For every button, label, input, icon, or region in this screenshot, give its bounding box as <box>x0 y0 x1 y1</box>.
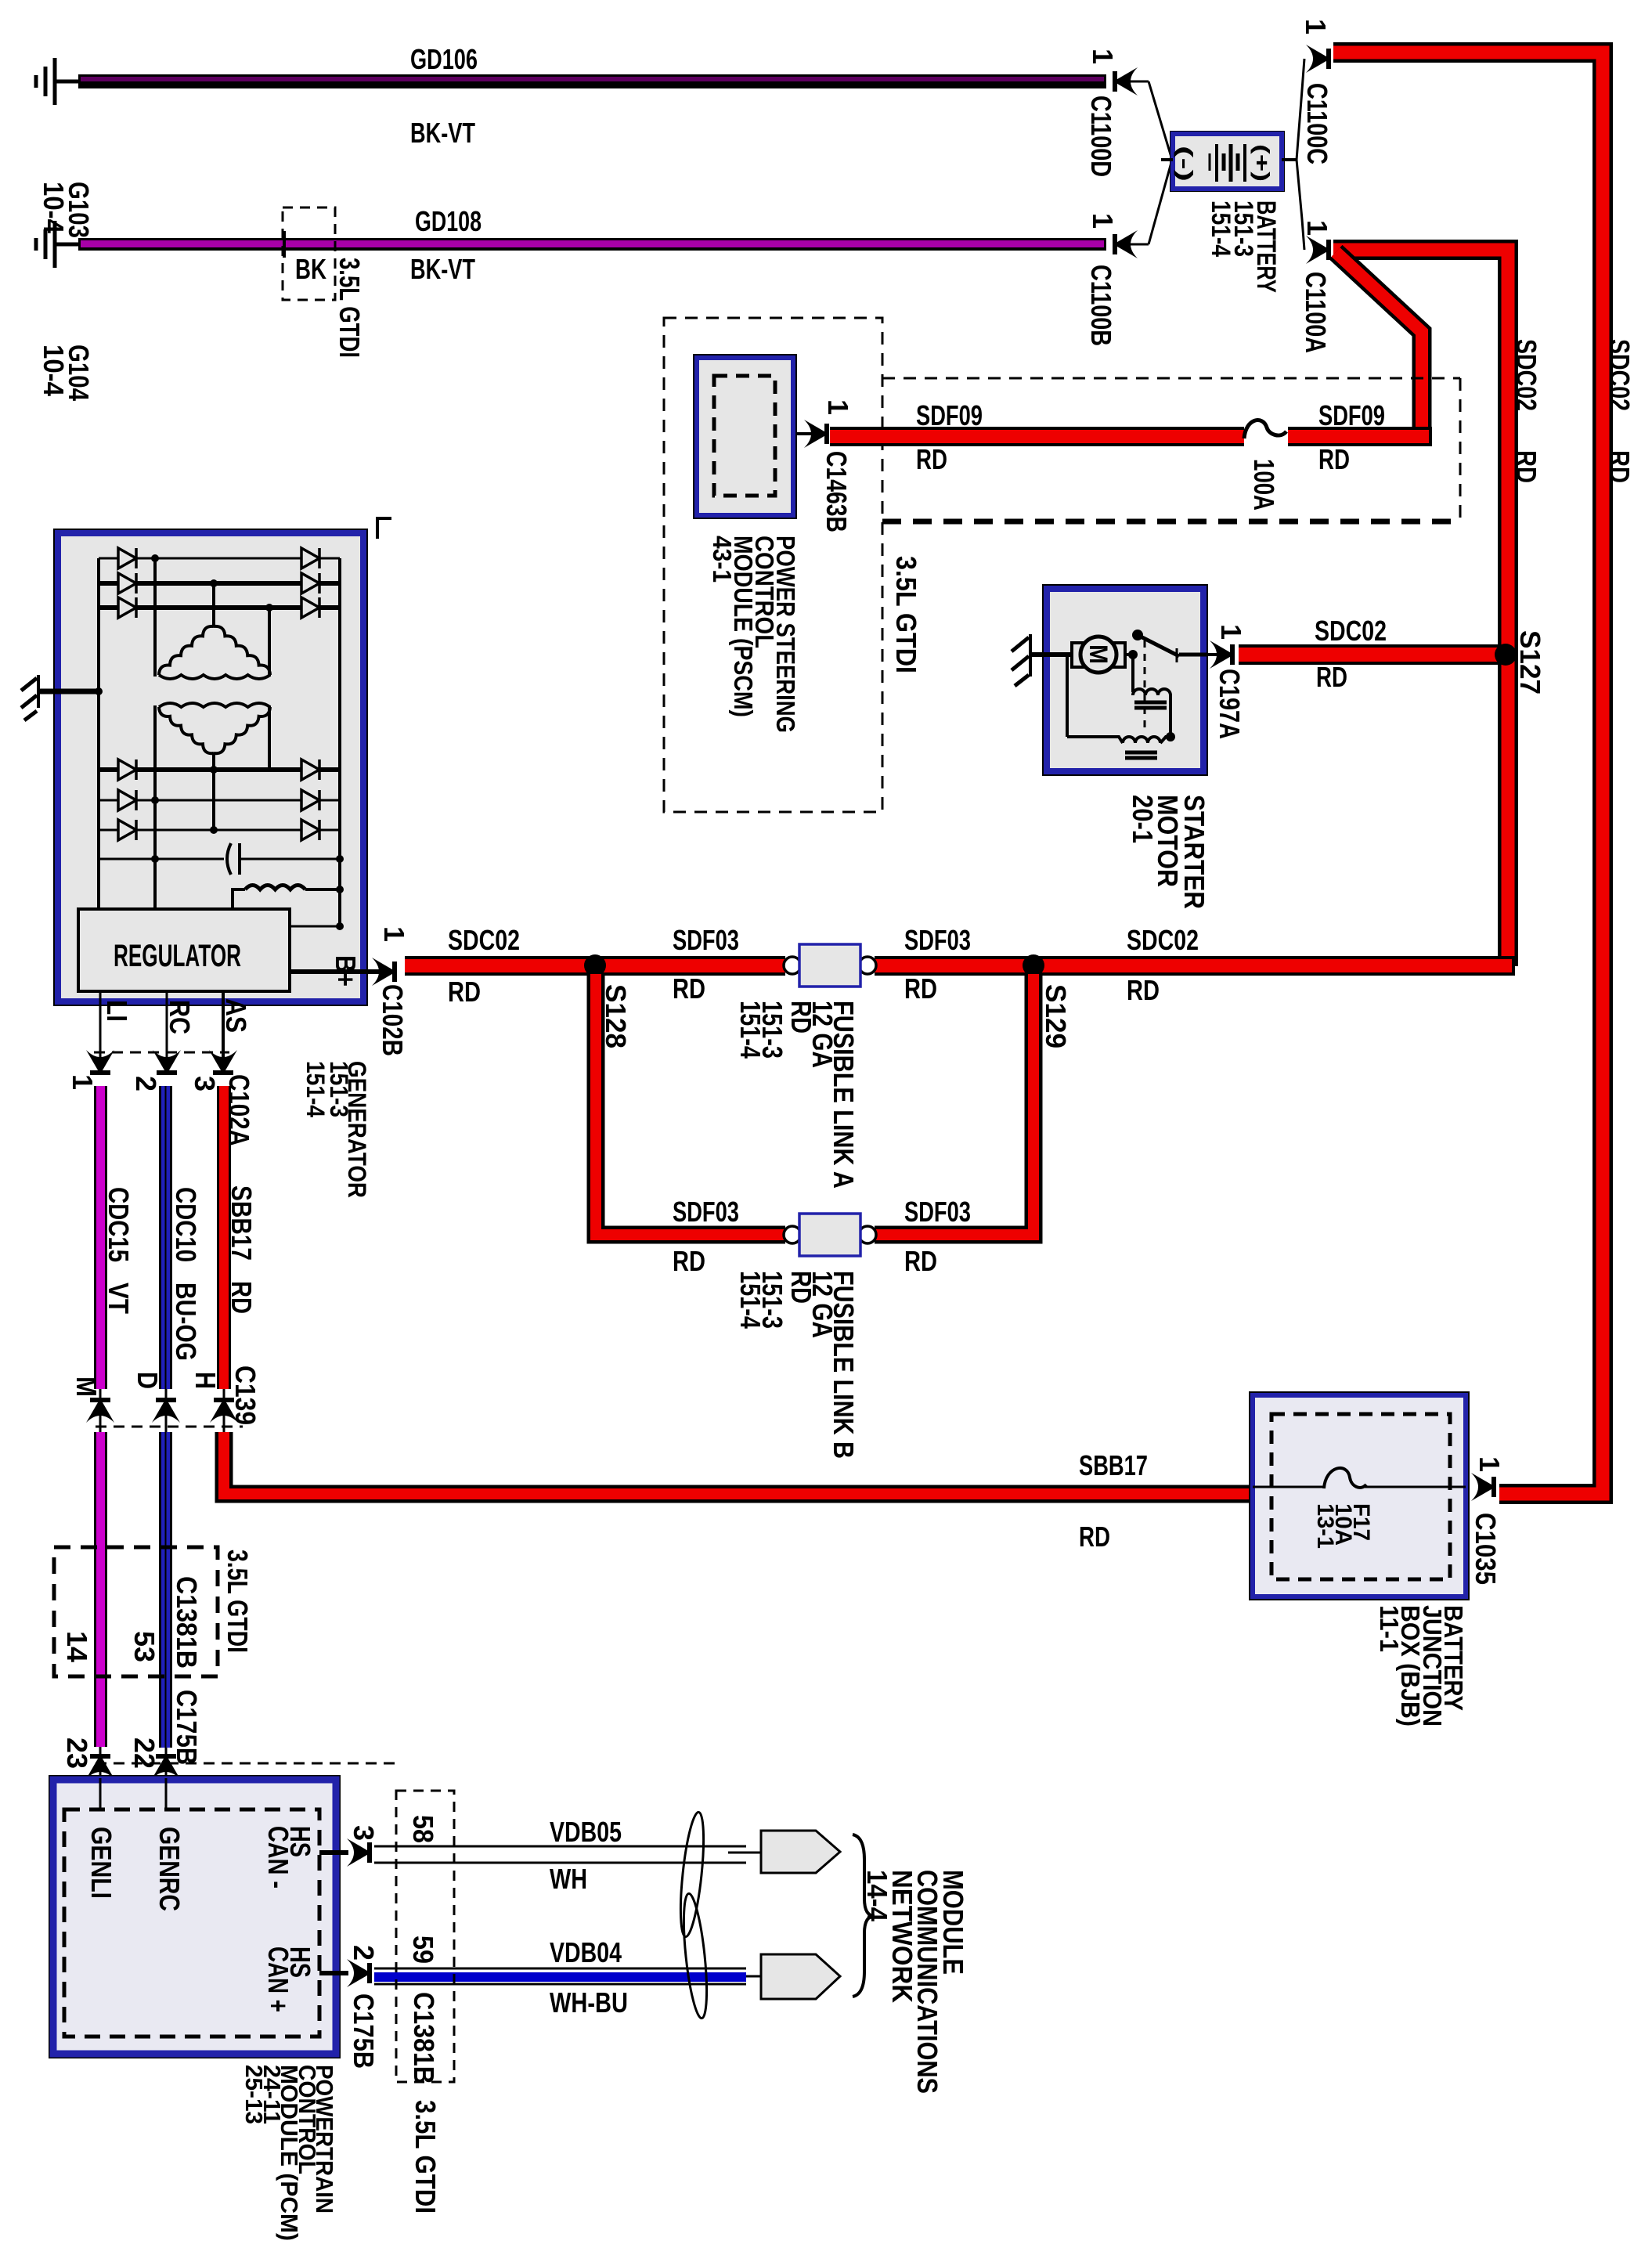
PCM pin 2 line and arrow <box>319 1959 372 1987</box>
label SBB17 (horizontal) <box>1079 1449 1148 1481</box>
label C1463B <box>821 451 853 532</box>
svg-text:C175B: C175B <box>348 1993 380 2069</box>
fusible link 100A symbol <box>1244 420 1286 438</box>
label SBB17 <box>225 1185 258 1261</box>
svg-text:20-1: 20-1 <box>1127 795 1159 843</box>
regulator pin lines LI RC AS <box>100 991 223 1059</box>
label C1035 <box>1470 1513 1502 1585</box>
label RD (starter wire) <box>1316 661 1347 693</box>
wire SBB17 RD (to BJB) <box>224 1432 1251 1494</box>
label WH-BU <box>550 1986 628 2019</box>
svg-text:CAN +: CAN + <box>262 1947 294 2012</box>
svg-text:13-1: 13-1 <box>1312 1503 1338 1549</box>
svg-text:RD: RD <box>785 1001 817 1034</box>
svg-text:1: 1 <box>1087 213 1119 229</box>
label GD108 <box>415 205 482 237</box>
svg-text:C197A: C197A <box>1214 669 1246 739</box>
svg-text:C1381B: C1381B <box>171 1576 203 1669</box>
svg-text:SDF09: SDF09 <box>916 399 983 431</box>
svg-text:RD: RD <box>448 976 481 1008</box>
label 3.5L GTDI (bottom) <box>409 2100 442 2214</box>
label SDC02 (inner vertical) <box>1510 339 1542 411</box>
ground G104 <box>36 221 78 268</box>
svg-text:C139: C139 <box>229 1366 262 1425</box>
svg-text:C1381B: C1381B <box>408 1992 440 2084</box>
svg-text:1: 1 <box>1473 1456 1506 1472</box>
svg-text:S129: S129 <box>1040 984 1072 1048</box>
wire SDC02 outer (C1100C to BJB) <box>1333 52 1603 1494</box>
wire GD108 BK-VT <box>78 238 1106 251</box>
svg-text:CDC10: CDC10 <box>170 1187 202 1262</box>
svg-text:43-1: 43-1 <box>708 536 737 583</box>
svg-text:H: H <box>189 1372 222 1389</box>
svg-text:3.5L GTDI: 3.5L GTDI <box>409 2100 442 2214</box>
label GENRC <box>153 1827 186 1911</box>
svg-text:C1100A: C1100A <box>1300 272 1332 353</box>
wire SDC02 RD (B+ to fusible links) <box>405 956 785 976</box>
svg-text:59: 59 <box>407 1936 439 1964</box>
label POWER STEERING CONTROL MODULE (PSCM) 43-1 <box>708 536 800 733</box>
label HS CAN - <box>262 1826 316 1889</box>
label C1381B (right) <box>408 1992 440 2084</box>
label S127 <box>1514 630 1546 695</box>
svg-text:RD: RD <box>1603 450 1636 483</box>
label C1100D <box>1085 96 1117 177</box>
pin 3 (C102A) <box>189 1076 221 1091</box>
label C197A <box>1214 669 1246 739</box>
pin H (C139) <box>189 1372 222 1389</box>
label C1100C <box>1301 83 1333 164</box>
svg-text:151-4: 151-4 <box>301 1061 330 1117</box>
svg-text:RD: RD <box>673 1245 705 1277</box>
wire CDC10 BU-OG (lower) <box>159 1432 172 1748</box>
label C139 <box>229 1366 262 1425</box>
label SDC02 (outer vertical) <box>1603 339 1636 411</box>
svg-text:3.5L GTDI: 3.5L GTDI <box>334 258 366 358</box>
ground (starter) <box>1012 634 1071 686</box>
svg-text:3: 3 <box>348 1825 380 1841</box>
label 3.5L GTDI (splice) <box>334 258 366 358</box>
inline connector C1381B dashed box (right) <box>396 1791 454 2082</box>
label 3.5L GTDI (C1381B left) <box>222 1550 254 1653</box>
svg-text:VDB04: VDB04 <box>550 1936 622 1968</box>
svg-text:SDC02: SDC02 <box>1315 615 1387 647</box>
pin 1 (C102A) <box>67 1074 99 1090</box>
stator delta winding 2 <box>159 703 270 753</box>
svg-text:SDC02: SDC02 <box>448 924 520 956</box>
svg-text:SBB17: SBB17 <box>1079 1449 1148 1481</box>
label BK <box>295 253 326 285</box>
label MODULE COMMUNICATIONS NETWORK 14-4 <box>861 1870 969 2094</box>
svg-text:100A: 100A <box>1248 459 1280 511</box>
svg-text:CAN -: CAN - <box>262 1826 294 1889</box>
connector C139 <box>86 1389 243 1432</box>
wire CDC10 BU-OG (upper) <box>159 1086 172 1389</box>
label RD (outer vertical) <box>1603 450 1636 483</box>
label CDC15 <box>103 1187 135 1262</box>
svg-text:RC: RC <box>164 1000 196 1034</box>
connector C197A arrow pin 1 <box>1208 640 1235 669</box>
dashed boundary 3.5L GTDI channel <box>882 378 1460 521</box>
svg-text:AS: AS <box>220 998 252 1033</box>
svg-text:SDF03: SDF03 <box>673 1196 739 1228</box>
svg-text:2: 2 <box>130 1076 162 1091</box>
stator delta winding 1 <box>159 626 270 679</box>
label F17 10A 13-1 <box>1312 1503 1374 1549</box>
svg-text:14: 14 <box>61 1631 93 1663</box>
pin 1 (C102B) <box>378 926 410 942</box>
svg-text:1: 1 <box>1215 624 1247 640</box>
wire SDC02 inner (C1100A down to junction) <box>1333 250 1508 966</box>
label C102A <box>223 1074 255 1146</box>
pin 1 (C197A) <box>1215 624 1247 640</box>
PCM pin 3 line and arrow <box>319 1838 372 1867</box>
svg-text:C1035: C1035 <box>1470 1513 1502 1585</box>
svg-text:23: 23 <box>61 1737 93 1769</box>
label LI <box>101 1000 133 1022</box>
svg-text:SDC02: SDC02 <box>1510 339 1542 411</box>
svg-text:GD108: GD108 <box>415 205 482 237</box>
label B+ <box>330 955 362 987</box>
label BK-VT (GD108) <box>410 253 475 285</box>
label AS <box>220 998 252 1033</box>
connector C1100C arrow <box>1297 45 1331 160</box>
svg-text:RD: RD <box>225 1281 258 1314</box>
pin 1 (C1463B) <box>822 399 854 415</box>
battery junction box BJB <box>1249 1391 1470 1600</box>
svg-text:C1100C: C1100C <box>1301 83 1333 164</box>
svg-text:BK-VT: BK-VT <box>410 117 475 149</box>
svg-text:1: 1 <box>67 1074 99 1090</box>
label RD (inner vertical) <box>1510 450 1542 483</box>
label GD106 <box>410 43 478 75</box>
svg-text:CDC15: CDC15 <box>103 1187 135 1262</box>
label RD (before corner) <box>1127 974 1160 1006</box>
connector C102A dashed line <box>94 1052 229 1054</box>
label STARTER MOTOR 20-1 <box>1127 795 1210 909</box>
label RD (SBB17) <box>225 1281 258 1314</box>
label RD (link A right) <box>904 972 937 1005</box>
svg-text:SDC02: SDC02 <box>1127 924 1199 956</box>
svg-text:RD: RD <box>1510 450 1542 483</box>
svg-text:WH: WH <box>550 1863 587 1895</box>
wire GD106 BK-VT <box>78 74 1106 88</box>
label BU-OG <box>170 1283 202 1361</box>
wire SDF03/SDC02 RD (link A to corner) <box>875 956 1515 976</box>
wire SDC02 RD (starter to S127) <box>1239 644 1502 665</box>
label RC <box>164 1000 196 1034</box>
pin 1 (C1100A) <box>1301 220 1333 236</box>
wire SDF03 RD (link B to S129 branch) <box>875 974 1033 1235</box>
solenoid hold-in coil <box>1067 655 1175 758</box>
svg-text:SDC02: SDC02 <box>1603 339 1636 411</box>
label RD (after B+) <box>448 976 481 1008</box>
svg-text:SDF03: SDF03 <box>904 924 971 956</box>
svg-text:C1463B: C1463B <box>821 451 853 532</box>
svg-text:58: 58 <box>407 1815 439 1843</box>
label C175B (top) <box>171 1690 203 1765</box>
svg-text:RD: RD <box>1316 661 1347 693</box>
pin 53 <box>128 1631 161 1662</box>
pin 2 (C175B) <box>348 1945 380 1961</box>
label FUSIBLE LINK B 12 GA RD 151-3 151-4 <box>734 1271 860 1459</box>
label S129 <box>1040 984 1072 1048</box>
svg-text:22: 22 <box>128 1737 161 1769</box>
capacitor C (generator) <box>99 843 344 875</box>
pin 3 (C175B) <box>348 1825 380 1841</box>
connector C1035 arrow pin 1 <box>1471 1473 1496 1501</box>
starter motor box <box>1042 584 1208 776</box>
label RD (link A left) <box>673 972 705 1005</box>
svg-text:SDF03: SDF03 <box>673 924 739 956</box>
svg-text:3.5L GTDI: 3.5L GTDI <box>890 556 922 673</box>
power steering control module PSCM box <box>693 354 797 519</box>
label RD (SDF09 left) <box>916 443 947 475</box>
fusible link A <box>784 944 876 987</box>
label RD (SDF09 right) <box>1318 443 1350 475</box>
fusible link B <box>784 1214 876 1256</box>
C102A pin arrows <box>86 1050 237 1075</box>
label SDF09 (left) <box>916 399 983 431</box>
svg-text:C1100B: C1100B <box>1085 265 1117 346</box>
pin 1 (C1100C) <box>1300 19 1332 34</box>
svg-text:(+): (+) <box>1250 144 1274 182</box>
ground (generator) <box>21 675 99 720</box>
svg-text:1: 1 <box>1087 49 1119 64</box>
wire SDF09 RD <box>830 427 1432 446</box>
svg-text:10-4: 10-4 <box>38 345 70 397</box>
ground G103 <box>36 58 78 105</box>
battery <box>1161 131 1297 192</box>
label C102B <box>377 984 409 1056</box>
svg-text:RD: RD <box>1079 1521 1110 1553</box>
label SDF03 (link A left) <box>673 924 739 956</box>
label (+) <box>1250 144 1274 182</box>
label VT <box>103 1283 135 1314</box>
connector C1100D arrow <box>1113 67 1172 160</box>
svg-text:RD: RD <box>1318 443 1350 475</box>
label SDC02 (starter wire) <box>1315 615 1387 647</box>
svg-text:151-4: 151-4 <box>734 1271 766 1330</box>
svg-text:SDF03: SDF03 <box>904 1196 971 1228</box>
label FUSIBLE LINK A 12 GA RD 151-3 151-4 <box>734 1001 860 1189</box>
connector C1100B arrow <box>1113 160 1172 258</box>
svg-text:RD: RD <box>673 972 705 1005</box>
label HS CAN + <box>262 1947 316 2012</box>
svg-text:151-4: 151-4 <box>734 1001 766 1059</box>
label SDF03 (link B left) <box>673 1196 739 1228</box>
wire SDF03 RD (S128 branch to link B) <box>596 974 785 1235</box>
pin 2 (C102A) <box>130 1076 162 1091</box>
label (-) <box>1174 146 1197 182</box>
label BK-VT (GD106) <box>410 117 475 149</box>
svg-text:VDB05: VDB05 <box>550 1816 622 1848</box>
svg-text:RD: RD <box>916 443 947 475</box>
svg-text:C102B: C102B <box>377 984 409 1056</box>
splice S128 <box>584 954 606 976</box>
pin 23 <box>61 1737 93 1769</box>
svg-text:BU-OG: BU-OG <box>170 1283 202 1361</box>
splice S129 <box>1023 954 1044 976</box>
generator internal buses <box>95 554 340 926</box>
pin 59 <box>407 1936 439 1964</box>
svg-text:53: 53 <box>128 1631 161 1662</box>
network terminator (VDB05) <box>761 1831 840 1873</box>
connector C175B top arrows <box>86 1747 396 1779</box>
splice box BK on GD108 <box>283 207 335 300</box>
svg-text:M: M <box>1084 644 1113 664</box>
label GENLI <box>85 1827 117 1899</box>
svg-text:3: 3 <box>189 1076 221 1091</box>
label GENERATOR 151-3 151-4 <box>301 1061 371 1198</box>
pin 58 <box>407 1815 439 1843</box>
svg-text:1: 1 <box>1300 19 1332 34</box>
pin M (C139) <box>70 1376 103 1397</box>
svg-text:S127: S127 <box>1514 630 1546 695</box>
pin 14 <box>61 1631 93 1663</box>
svg-text:SDF09: SDF09 <box>1318 399 1385 431</box>
label G104 10-4 <box>38 345 95 402</box>
pin 1 (C1100D) <box>1087 49 1119 64</box>
svg-text:(-): (-) <box>1174 146 1197 182</box>
label SDF03 (link A right) <box>904 924 971 956</box>
label SDC02 (before corner) <box>1127 924 1199 956</box>
wire VDB05 WH twisted pair <box>374 1846 761 1863</box>
generator box <box>53 518 391 1006</box>
svg-text:GENRC: GENRC <box>153 1827 186 1911</box>
svg-text:LI: LI <box>101 1000 133 1022</box>
label BATTERY JUNCTION BOX (BJB) 11-1 <box>1375 1605 1468 1726</box>
svg-text:D: D <box>132 1372 164 1389</box>
svg-text:GENLI: GENLI <box>85 1827 117 1899</box>
label C1100B <box>1085 265 1117 346</box>
label 100A <box>1248 459 1280 511</box>
inline connector C1381B dashed box (left) <box>54 1547 218 1676</box>
rectifier diode rows <box>99 548 340 840</box>
svg-text:C175B: C175B <box>171 1690 203 1765</box>
svg-text:BK: BK <box>295 253 326 285</box>
rotor field coil (generator) <box>233 886 344 931</box>
svg-text:GD106: GD106 <box>410 43 478 75</box>
svg-text:RD: RD <box>785 1271 817 1304</box>
svg-text:14-4: 14-4 <box>861 1870 893 1922</box>
wire VDB04 WH-BU twisted pair <box>374 1968 761 1984</box>
pin 1 (C1100B) <box>1087 213 1119 229</box>
svg-text:M: M <box>70 1376 103 1397</box>
fuse F17 10A <box>1253 1468 1466 1488</box>
label S128 <box>600 984 632 1048</box>
connector C1463B arrow pin 1 <box>797 420 829 448</box>
svg-text:11-1: 11-1 <box>1375 1605 1404 1652</box>
label SDC02 (after B+) <box>448 924 520 956</box>
label POWERTRAIN CONTROL MODULE (PCM) 24-11 25-13 <box>240 2065 338 2241</box>
svg-text:REGULATOR: REGULATOR <box>114 939 241 973</box>
twisted pair loops <box>676 1811 712 2019</box>
label VDB05 <box>550 1816 622 1848</box>
connector C1100A arrow <box>1297 160 1331 264</box>
pin D (C139) <box>132 1372 164 1389</box>
svg-text:SBB17: SBB17 <box>225 1185 258 1261</box>
label RD (link B right) <box>904 1245 937 1277</box>
network terminator (VDB04) <box>761 1954 840 1999</box>
svg-text:1: 1 <box>822 399 854 415</box>
label RD (link B left) <box>673 1245 705 1277</box>
solenoid pull-in coil <box>1133 655 1170 737</box>
label CDC10 <box>170 1187 202 1262</box>
svg-text:BK-VT: BK-VT <box>410 253 475 285</box>
splice S127 <box>1495 644 1517 666</box>
svg-text:3.5L GTDI: 3.5L GTDI <box>222 1550 254 1653</box>
label C1381B (left) <box>171 1576 203 1669</box>
powertrain control module PCM box <box>49 1775 341 2058</box>
label RD (SBB17 horizontal) <box>1079 1521 1110 1553</box>
label C1100A <box>1300 272 1332 353</box>
PCM pin stubs GENLI GENRC <box>100 1778 166 1809</box>
label SDF09 (right) <box>1318 399 1385 431</box>
label VDB04 <box>550 1936 622 1968</box>
svg-text:151-4: 151-4 <box>1206 200 1235 257</box>
svg-text:2: 2 <box>348 1945 380 1961</box>
wire CDC15 VT (upper) <box>94 1086 107 1389</box>
pin 22 <box>128 1737 161 1769</box>
PSCM dashed enclosure <box>664 318 882 812</box>
label G103 10-4 <box>38 182 95 238</box>
svg-text:RD: RD <box>904 972 937 1005</box>
svg-text:RD: RD <box>1127 974 1160 1006</box>
svg-text:1: 1 <box>378 926 410 942</box>
svg-text:1: 1 <box>1301 220 1333 236</box>
wire SBB17 RD (vertical upper) <box>217 1086 231 1389</box>
wire CDC15 VT (lower) <box>94 1432 107 1747</box>
label 3.5L GTDI (channel) <box>890 556 922 673</box>
motor M symbol <box>1072 637 1125 673</box>
svg-text:C1100D: C1100D <box>1085 96 1117 177</box>
brace (module communications network) <box>853 1835 875 1997</box>
B+ output line and arrow pin 1 C102B <box>290 958 397 986</box>
label WH <box>550 1863 587 1895</box>
svg-text:RD: RD <box>904 1245 937 1277</box>
label BATTERY 151-3 151-4 <box>1206 200 1281 293</box>
label C175B (right) <box>348 1993 380 2069</box>
regulator U1 <box>78 909 290 991</box>
svg-text:WH-BU: WH-BU <box>550 1986 628 2019</box>
svg-text:VT: VT <box>103 1283 135 1314</box>
wire branch C1100A to SDF09 <box>1336 252 1422 436</box>
pin 1 (C1035) <box>1473 1456 1506 1472</box>
svg-text:25-13: 25-13 <box>240 2065 268 2124</box>
label SDF03 (link B right) <box>904 1196 971 1228</box>
starter solenoid switch <box>1125 630 1208 733</box>
